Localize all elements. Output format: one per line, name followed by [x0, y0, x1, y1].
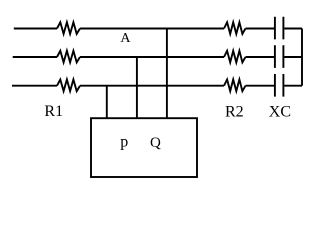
wire row3 right [246, 85, 275, 87]
wire row1 right [246, 28, 275, 30]
svg-text:R1: R1 [44, 103, 63, 120]
wire row3 cap to bus [284, 85, 302, 87]
wire row3 left [12, 85, 57, 87]
wire drop row1 to box [166, 29, 168, 119]
capacitor XC row1 plates [275, 17, 284, 40]
wire row1 middle [80, 28, 224, 30]
svg-text:p: p [120, 134, 128, 151]
wire drop row3 to box [106, 86, 108, 119]
wire drop row2 to box [136, 57, 138, 118]
capacitor row3 plates [275, 74, 284, 97]
wire row3 middle [80, 85, 224, 87]
svg-text:A: A [120, 31, 131, 46]
svg-text:XC: XC [269, 104, 291, 121]
wire row2 left [13, 56, 57, 58]
wire row1 left [14, 28, 57, 30]
resistor R2 row1 [224, 22, 246, 34]
wire row2 cap to bus [284, 56, 302, 58]
svg-text:Q: Q [150, 135, 161, 151]
box P/Q [91, 118, 197, 177]
wire right bus [301, 29, 303, 86]
wire row1 cap to bus [284, 28, 302, 30]
wire row2 right [246, 56, 275, 58]
resistor row3 left [57, 80, 80, 92]
resistor row2 left [57, 51, 80, 63]
capacitor row2 plates [275, 45, 284, 68]
resistor R1 row1 [57, 22, 80, 34]
resistor row2 right [224, 51, 246, 63]
svg-text:R2: R2 [225, 104, 244, 121]
wire row2 middle [80, 56, 224, 58]
resistor row3 right [224, 80, 246, 92]
